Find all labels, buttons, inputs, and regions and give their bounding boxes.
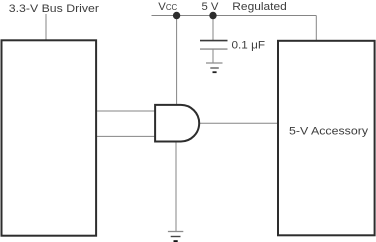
gate: AND gate U1 <box>155 105 199 142</box>
wire: gate input B <box>96 135 155 137</box>
wire: 5-V junction drop to capacitor top plate <box>212 16 214 41</box>
node: Vcc junction dot <box>173 12 180 19</box>
svg-text:5 V: 5 V <box>202 1 219 13</box>
capacitor C1 0.1uF: top plate <box>200 40 228 42</box>
ground: below gate (3 bars) <box>168 231 183 233</box>
svg-text:0.1 μF: 0.1 μF <box>232 39 266 51</box>
wire: gate output to 5-V Accessory <box>199 122 278 124</box>
capacitor C1 0.1uF: bottom plate <box>200 48 228 50</box>
box: 3.3-V Bus Driver <box>2 40 97 235</box>
svg-text:Regulated: Regulated <box>232 1 286 13</box>
wire: gate bottom pin to ground <box>175 142 177 232</box>
svg-text:5-V Accessory: 5-V Accessory <box>289 126 368 138</box>
svg-text:3.3-V Bus Driver: 3.3-V Bus Driver <box>9 3 99 15</box>
wire: top power rail from Vcc to turn-down corner <box>152 15 317 17</box>
wire: capacitor bottom plate to ground <box>212 49 214 63</box>
node: 5-V junction dot <box>209 12 216 19</box>
wire: power rail drop into 5-V Accessory box <box>315 16 317 42</box>
wire: gate input A <box>96 110 155 112</box>
ground: below capacitor (3 bars) <box>206 62 223 64</box>
box: 5-V Accessory <box>278 41 375 236</box>
wire: Vcc drop from junction to AND-gate top pin <box>176 16 178 105</box>
wire: label leader from "3.3-V Bus Driver" to box <box>45 14 47 40</box>
svg-text:VCC: VCC <box>158 1 177 13</box>
